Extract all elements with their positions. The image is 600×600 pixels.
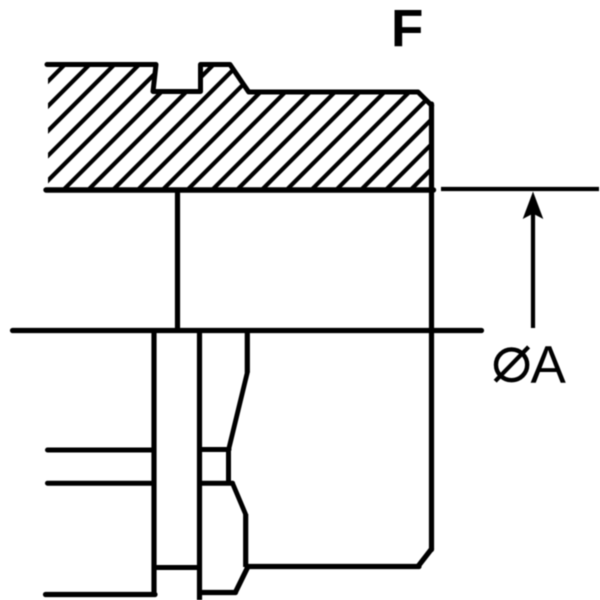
cone lower slope bbox=[233, 483, 246, 514]
dimension arrow shaft bbox=[531, 212, 535, 328]
thread line upper right bbox=[201, 447, 229, 452]
body bottom right chamfer bbox=[419, 549, 432, 566]
body right edge bbox=[429, 104, 434, 550]
bottom edge left segment bbox=[46, 592, 156, 597]
bottom left chamfer of nose bbox=[236, 568, 248, 592]
shank left edge bbox=[151, 331, 156, 595]
bottom edge right segment bbox=[200, 590, 236, 595]
svg-text:A: A bbox=[531, 336, 567, 395]
shank web edge bbox=[154, 565, 200, 570]
thread line lower left bbox=[48, 481, 155, 486]
flange section outline bbox=[47, 65, 432, 106]
cone bottom edge bbox=[243, 514, 248, 567]
dimension line bbox=[441, 187, 599, 191]
label diameter A : slashed circle bbox=[495, 347, 528, 381]
flange bottom edge bbox=[46, 187, 434, 192]
body bottom edge bbox=[247, 564, 419, 569]
svg-text:F: F bbox=[391, 0, 423, 59]
cone throat edge bbox=[226, 450, 231, 484]
section hatching of flange bbox=[0, 56, 569, 198]
shank second edge bbox=[197, 331, 202, 600]
dimension arrowhead bbox=[523, 192, 544, 220]
thread line lower right bbox=[201, 481, 233, 486]
cone upper slope bbox=[229, 373, 247, 449]
centerline bbox=[13, 328, 482, 333]
bore step edge bbox=[175, 190, 180, 330]
cone top edge bbox=[245, 331, 250, 373]
thread line upper left bbox=[48, 448, 155, 453]
